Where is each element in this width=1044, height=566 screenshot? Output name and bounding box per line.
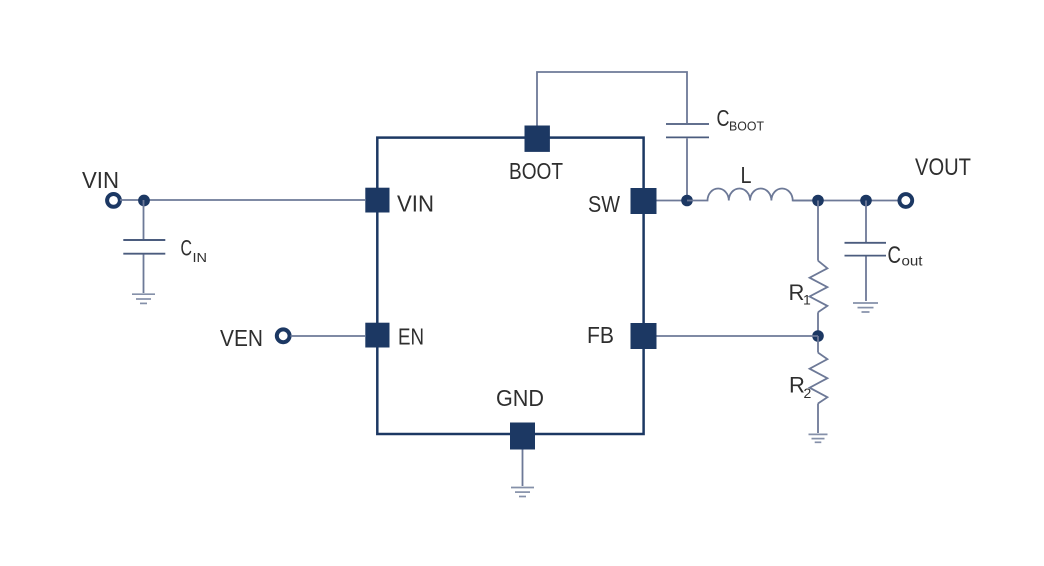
svg-text:C: C: [181, 236, 193, 261]
ground (R2): [809, 434, 828, 442]
capacitor Cout value label: [888, 242, 923, 269]
svg-text:SW: SW: [588, 191, 620, 217]
svg-text:EN: EN: [398, 324, 424, 350]
node VEN label: [220, 325, 263, 351]
node A junction dot: [138, 195, 150, 207]
inductor L: [687, 189, 818, 201]
svg-text:2: 2: [804, 385, 812, 401]
svg-text:IN: IN: [193, 250, 208, 265]
pin VIN: [365, 188, 389, 213]
node VOUT label: [915, 154, 971, 181]
IC U1 box: [377, 138, 643, 434]
ground (Cout): [853, 303, 878, 312]
svg-text:L: L: [741, 162, 752, 188]
node C junction dot (Cout tap): [860, 195, 872, 207]
svg-text:C: C: [717, 105, 730, 131]
pin FB: [631, 323, 657, 349]
svg-text:C: C: [888, 242, 902, 269]
terminal VIN: [107, 194, 120, 207]
svg-text:BOOT: BOOT: [509, 158, 563, 184]
ground (CIN): [132, 294, 155, 303]
svg-text:VIN: VIN: [397, 191, 434, 217]
wire VIN input: [120, 199, 365, 201]
wire inductor to VOUT: [793, 200, 899, 202]
wire BOOT to CBOOT: [537, 72, 687, 126]
pin VIN label: [397, 191, 434, 217]
node FB junction dot: [812, 330, 824, 342]
svg-text:GND: GND: [496, 385, 544, 411]
terminal VEN: [277, 329, 290, 342]
resistor R1 value label: [789, 280, 812, 308]
pin SW: [631, 188, 657, 214]
svg-text:VIN: VIN: [82, 167, 119, 193]
pin GND label: [496, 385, 544, 411]
wire VEN to EN: [291, 335, 366, 337]
pin BOOT: [525, 126, 550, 152]
svg-text:R: R: [789, 280, 805, 305]
svg-text:1: 1: [803, 292, 811, 308]
svg-text:VEN: VEN: [220, 325, 263, 351]
svg-text:R: R: [789, 373, 805, 398]
node VIN label: [82, 167, 119, 193]
node B junction dot (feedback tap): [812, 195, 824, 207]
wire GND lead: [522, 450, 524, 487]
ground (GND pin): [511, 488, 534, 497]
wire SW to inductor: [657, 200, 688, 202]
svg-text:FB: FB: [587, 322, 614, 348]
pin FB label: [587, 322, 614, 348]
wire Cout lead: [865, 201, 867, 243]
wire CIN lead: [143, 200, 145, 240]
capacitor CIN value label: [181, 236, 208, 266]
resistor R2 value label: [789, 373, 812, 402]
pin SW label: [588, 191, 620, 217]
pin EN: [365, 323, 389, 348]
svg-text:VOUT: VOUT: [915, 154, 971, 181]
svg-text:out: out: [902, 253, 923, 269]
capacitor CBOOT: [666, 124, 709, 200]
resistor R1: [810, 261, 828, 336]
terminal VOUT: [899, 194, 912, 207]
pin BOOT label: [509, 158, 563, 184]
resistor R2: [810, 336, 828, 433]
wire VOUT node to R1: [817, 201, 819, 261]
wire FB: [657, 335, 819, 337]
inductor L value label: [741, 162, 752, 188]
capacitor Cout: [845, 243, 887, 301]
pin EN label: [398, 324, 424, 350]
capacitor CIN: [123, 240, 165, 293]
svg-text:BOOT: BOOT: [729, 119, 764, 134]
node SW junction dot: [681, 195, 693, 207]
capacitor CBOOT value label: [717, 105, 765, 134]
pin GND: [510, 423, 535, 450]
